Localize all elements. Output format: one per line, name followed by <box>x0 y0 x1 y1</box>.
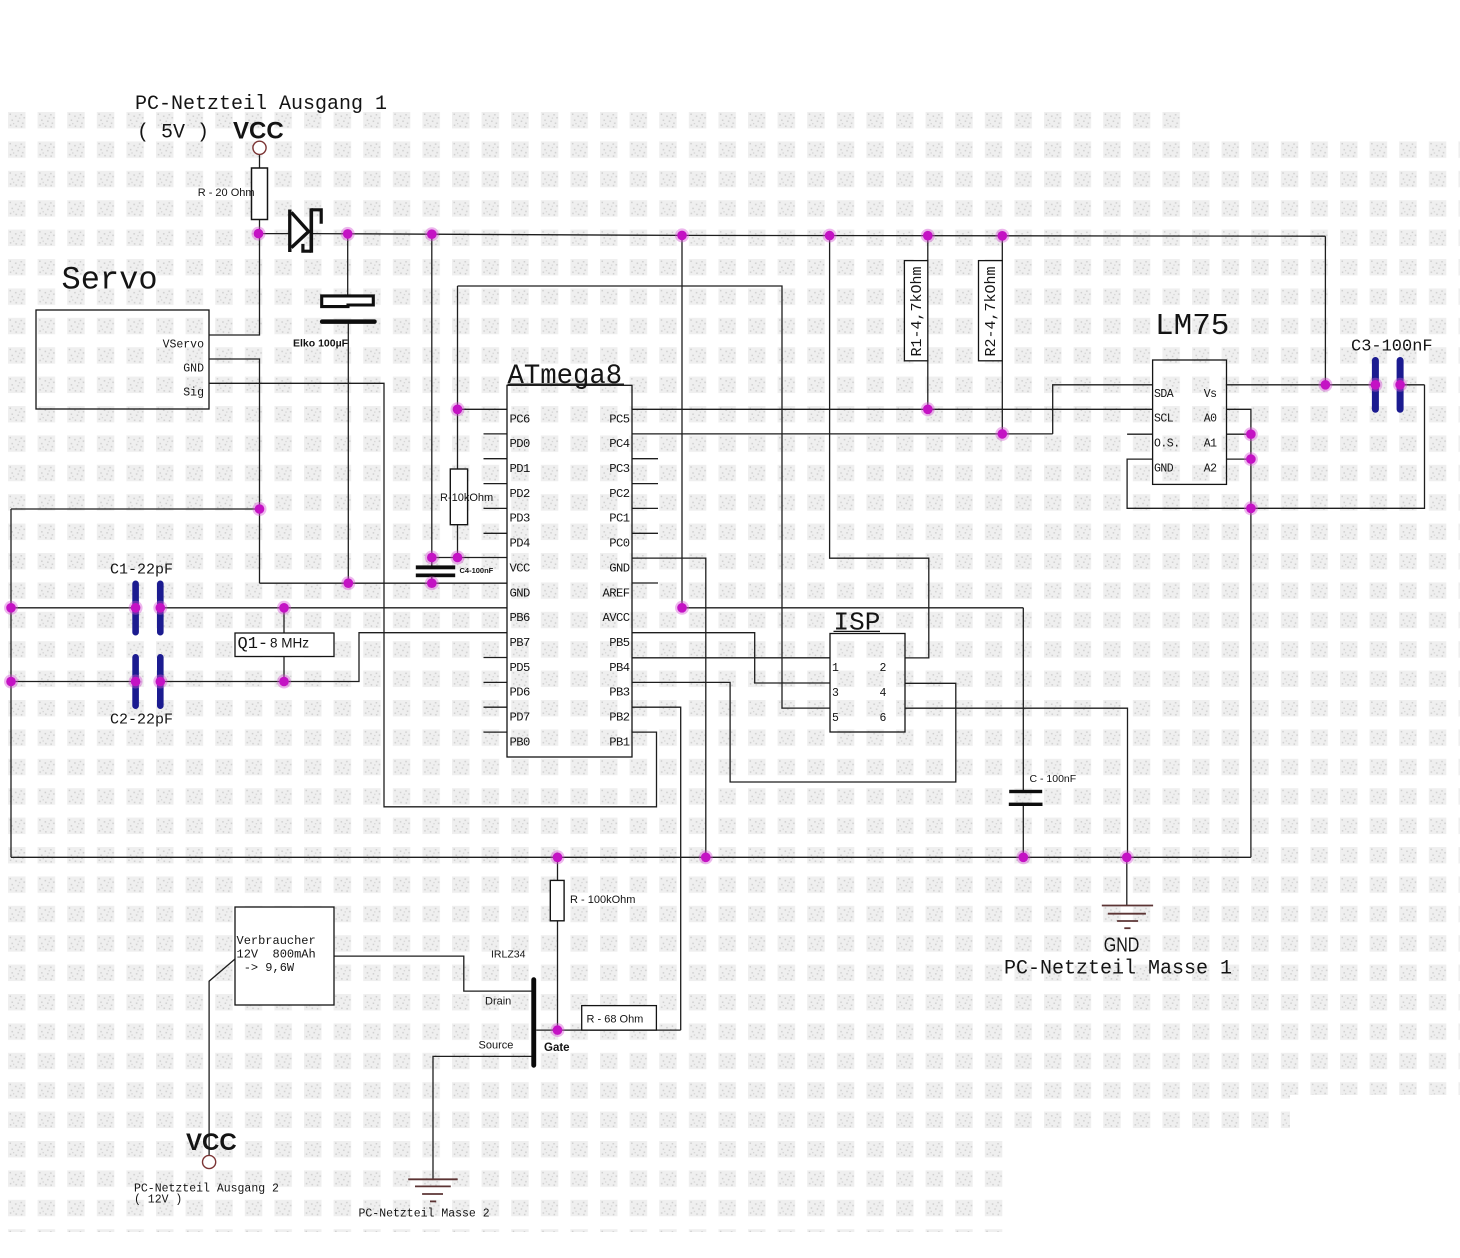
pin number labels ISP 1 3 5 <box>832 662 839 725</box>
wire bottom ground rail <box>11 856 1251 858</box>
wire rail to resistor R1 top <box>927 236 929 261</box>
capacitor C3-100nF left plate <box>1372 357 1379 413</box>
capacitor C2-22pF right plate <box>157 654 164 709</box>
svg-text:PB1: PB1 <box>609 735 630 749</box>
wire crystal bottom link <box>283 657 285 682</box>
svg-text:4: 4 <box>880 687 887 700</box>
wire LM75 A0 to ground column <box>1227 409 1251 857</box>
wire ATmega left stub PB0 <box>484 731 508 733</box>
svg-text:LM75: LM75 <box>1155 309 1229 344</box>
wire PB2 to gate resistor R-68 <box>632 707 681 1030</box>
svg-text:A2: A2 <box>1204 462 1217 475</box>
wire R-20 bottom to +5V rail node <box>259 220 261 234</box>
underline ATmega8 <box>508 383 625 385</box>
wire Elko bottom plate to GND row <box>347 324 349 584</box>
svg-text:PC-Netzteil Ausgang 1: PC-Netzteil Ausgang 1 <box>135 93 387 116</box>
wire rail to Elko top plate <box>347 234 349 295</box>
wire crystal top link <box>283 608 285 633</box>
resistor R-20 Ohm body <box>252 168 268 220</box>
wire rail to R-100k top <box>557 857 559 880</box>
wire rail down to AVCC junction <box>681 235 683 607</box>
node LM75 ground loop tie <box>1244 501 1258 515</box>
IC U1 ATmega8 box <box>507 385 632 757</box>
node C4 bottom GND junction <box>425 576 439 590</box>
svg-text:2: 2 <box>880 662 887 675</box>
capacitor C2-22pF left plate <box>132 654 139 709</box>
svg-text:PC4: PC4 <box>609 437 630 451</box>
wire R-100k bottom to gate node <box>557 921 559 1030</box>
wire ATmega right stub AREF <box>632 582 658 584</box>
label Verbraucher ratings <box>237 934 316 975</box>
node +5V at R-20 bottom <box>252 227 266 241</box>
wire LM75 A1 stub <box>1227 433 1251 435</box>
node C3 right plate junction <box>1393 378 1407 392</box>
wire ATmega GND right to bottom rail <box>632 558 706 857</box>
ground symbol GND2 PC-Netzteil Masse 2 <box>408 1179 458 1201</box>
svg-text:AVCC: AVCC <box>602 611 629 625</box>
node crystal top junction <box>277 601 291 615</box>
connector J1 Servo box <box>36 310 209 409</box>
svg-text:Gate: Gate <box>544 1042 570 1054</box>
svg-text:IRLZ34: IRLZ34 <box>491 949 526 961</box>
svg-text:A0: A0 <box>1204 413 1217 426</box>
node rail C-100nF junction <box>1016 850 1030 864</box>
svg-text:PC6: PC6 <box>510 412 531 426</box>
wire R-10k top to PC6 node and RESET line <box>457 286 459 469</box>
power symbol VCC1 terminal circle <box>253 141 266 154</box>
svg-text:Drain: Drain <box>485 995 511 1007</box>
wire C2 row left segment <box>11 681 136 683</box>
svg-text:Verbraucher: Verbraucher <box>237 934 316 948</box>
wire ATmega left stub PD6 <box>484 681 508 683</box>
svg-text:PC2: PC2 <box>609 487 630 501</box>
capacitor C4-100nF plates <box>416 565 455 569</box>
svg-text:GND: GND <box>183 363 204 376</box>
capacitor C1-22pF left plate <box>132 581 139 636</box>
svg-text:VCC: VCC <box>186 1129 237 1156</box>
wire Servo Sig to ATmega PB1 <box>209 383 657 807</box>
svg-text:Vs: Vs <box>1204 388 1217 401</box>
wire AVCC column to C-100nF top <box>1022 608 1024 790</box>
svg-text:PD0: PD0 <box>510 437 531 451</box>
svg-text:C1-22pF: C1-22pF <box>110 562 173 579</box>
svg-text:C - 100nF: C - 100nF <box>1030 773 1077 785</box>
svg-text:12V 800mAh: 12V 800mAh <box>237 948 316 962</box>
pin number labels ISP 2 4 6 <box>880 662 887 725</box>
resistor R-10kOhm body <box>450 469 467 525</box>
wire C4 bottom link <box>431 577 433 583</box>
wire ATmega left stub PD4 <box>484 532 508 534</box>
svg-text:PB5: PB5 <box>609 636 630 650</box>
transistor Q2 IRLZ34 body bar <box>531 977 536 1067</box>
svg-text:SCL: SCL <box>1154 413 1174 426</box>
svg-text:AREF: AREF <box>602 586 629 600</box>
svg-text:C3-100nF: C3-100nF <box>1351 338 1433 357</box>
wire ATmega right stub PC1 <box>632 507 658 509</box>
svg-text:5: 5 <box>832 712 839 725</box>
wire +5V node to diode anode <box>258 233 290 235</box>
svg-text:Sig: Sig <box>183 387 204 400</box>
svg-text:Servo: Servo <box>62 262 158 299</box>
wire C3 right plate stub <box>1400 384 1424 386</box>
node Elko top junction <box>341 227 355 241</box>
capacitor C1-22pF right plate <box>157 581 164 636</box>
resistor R-100kOhm body <box>550 880 564 920</box>
crystal Q1 box <box>235 633 334 657</box>
node VCC column junction <box>425 227 439 241</box>
wire ATmega left stub PD1 <box>484 458 508 460</box>
svg-text:PC5: PC5 <box>609 412 630 426</box>
wire SCL net PC5 to LM75 SCL <box>632 408 1153 410</box>
node ISP supply junction <box>823 229 837 243</box>
node A0-A1 tie <box>1244 427 1258 441</box>
wire left ground riser vertical <box>10 509 12 857</box>
wire C1 row left segment <box>11 607 136 609</box>
node Vs C3 junction <box>1318 378 1332 392</box>
resistor R1 4,7kOhm body <box>904 261 927 361</box>
svg-text:ATmega8: ATmega8 <box>508 361 623 392</box>
wire C4 top link <box>431 558 433 567</box>
wire PB3 to ISP pin4 <box>632 682 956 782</box>
node C1 right plate junction <box>153 601 167 615</box>
svg-text:PC-Netzteil Masse 2: PC-Netzteil Masse 2 <box>359 1208 490 1221</box>
wire ATmega left stub PD3 <box>484 507 508 509</box>
capacitor Elko 100uF top plate <box>322 296 374 307</box>
diode D1 bottom hook <box>303 244 311 251</box>
svg-text:PC1: PC1 <box>609 512 630 526</box>
wire rail to resistor R2 top <box>1001 236 1003 261</box>
wire Vs row to C3 left plate <box>1227 384 1376 386</box>
connector J2 ISP box <box>830 634 905 733</box>
svg-text:PD6: PD6 <box>510 686 531 700</box>
wire ATmega left stub PD2 <box>484 483 508 485</box>
svg-text:VCC: VCC <box>233 118 284 145</box>
wire +5V rail from diode cathode to right end <box>312 234 1325 237</box>
wire C1 row to crystal top and ATmega PB6 <box>160 607 507 609</box>
node C2 left plate junction <box>129 675 143 689</box>
svg-text:PD7: PD7 <box>510 711 531 725</box>
wire ATmega right stub PC3 <box>632 458 658 460</box>
wire Servo GND pin down to GND row <box>209 359 260 583</box>
wire PC6 pin <box>458 408 508 410</box>
wire R-10k bottom to VCC row <box>457 525 459 558</box>
svg-text:R - 100kOhm: R - 100kOhm <box>570 894 635 906</box>
wire SDA jog up to LM75 SDA <box>1053 385 1153 434</box>
pin labels LM75 right column <box>1204 388 1217 476</box>
wire rail to GND1 symbol <box>1126 857 1128 905</box>
node left riser C1 row <box>4 601 18 615</box>
node crystal bottom junction <box>277 675 291 689</box>
node rail GND1 junction <box>1120 850 1134 864</box>
svg-text:C4-100nF: C4-100nF <box>460 566 494 575</box>
wire PB5 to ISP pin3 <box>632 633 830 683</box>
wire ATmega left stub PD7 <box>484 706 508 708</box>
wire LM75 A2 stub <box>1227 458 1251 460</box>
wire C-100nF bottom to rail <box>1022 806 1024 858</box>
svg-text:PD2: PD2 <box>510 487 531 501</box>
svg-text:PC3: PC3 <box>609 462 630 476</box>
node PC6 reset junction <box>451 402 465 416</box>
diode D1 anode bar <box>288 210 291 253</box>
wire ATmega right stub PC2 <box>632 483 658 485</box>
svg-text:PB0: PB0 <box>510 735 531 749</box>
node AVCC row junction <box>675 601 689 615</box>
node C4 top VCC row junction <box>425 551 439 565</box>
node rail ATmega GND junction <box>699 850 713 864</box>
svg-text:C2-22pF: C2-22pF <box>110 712 173 729</box>
svg-text:O.S.: O.S. <box>1154 437 1180 450</box>
wire rail down to ATmega VCC pin column <box>431 234 433 557</box>
wire AVCC row to C-100nF column <box>682 607 1023 609</box>
svg-text:SDA: SDA <box>1154 388 1174 401</box>
svg-text:R - 20 Ohm: R - 20 Ohm <box>198 187 255 199</box>
wire C2 row to crystal bottom and PB7 riser <box>160 633 507 682</box>
wire Verbraucher to drain <box>334 956 532 991</box>
capacitor C-100nF plates <box>1009 790 1042 793</box>
svg-text:-> 9,6W: -> 9,6W <box>237 961 295 975</box>
capacitor C3-100nF right plate <box>1397 357 1404 413</box>
ground symbol GND1 PC-Netzteil Masse 1 <box>1102 906 1153 929</box>
diode D1 cathode bar <box>309 208 313 252</box>
svg-text:VCC: VCC <box>510 561 531 575</box>
svg-text:ISP: ISP <box>834 608 881 638</box>
wire Servo VServo pin to +5V node <box>209 234 260 335</box>
wire left ground riser to servo-gnd column <box>11 508 260 510</box>
svg-text:GND: GND <box>510 586 531 600</box>
pin labels ATmega8 left column <box>510 412 531 749</box>
wire LM75 GND loop to C3 right plate <box>1127 385 1424 509</box>
svg-text:( 12V ): ( 12V ) <box>134 1194 182 1207</box>
wire ATmega left stub PD0 <box>484 433 508 435</box>
capacitor Elko 100uF bottom plate <box>320 319 377 324</box>
svg-text:GND: GND <box>609 561 630 575</box>
svg-text:R - 68 Ohm: R - 68 Ohm <box>587 1014 644 1026</box>
diode D1 top hook <box>311 210 321 224</box>
wire PB4 to ISP pin1 <box>632 657 830 659</box>
node rail R-100k junction <box>551 850 565 864</box>
svg-text:PB3: PB3 <box>609 686 630 700</box>
node C3 left plate junction <box>1368 378 1382 392</box>
wire R1 bottom to SCL line <box>927 361 929 410</box>
node servo ground tee <box>253 502 267 516</box>
svg-text:6: 6 <box>880 712 887 725</box>
wire gate to R-68 <box>536 1029 681 1031</box>
wire source to GND2 symbol <box>433 1056 532 1179</box>
svg-text:PB6: PB6 <box>510 611 531 625</box>
svg-text:A1: A1 <box>1204 437 1217 450</box>
node A1-A2 tie <box>1244 452 1258 466</box>
resistor R2 4,7kOhm body <box>979 261 1003 361</box>
svg-text:R2-4,7kOhm: R2-4,7kOhm <box>983 266 1000 356</box>
svg-text:R-10kOhm: R-10kOhm <box>440 492 493 504</box>
node C2 right plate junction <box>153 675 167 689</box>
svg-text:PB4: PB4 <box>609 661 630 675</box>
wire ISP pin6 to ground rail <box>905 708 1128 857</box>
svg-text:Q1-: Q1- <box>238 635 269 654</box>
node AVCC column junction <box>675 228 689 242</box>
svg-text:PD1: PD1 <box>510 462 531 476</box>
wire GND row to ATmega GND pin <box>260 582 508 584</box>
node R1 bottom SCL junction <box>921 402 935 416</box>
power symbol VCC2 terminal circle <box>203 1155 216 1168</box>
svg-text:PB7: PB7 <box>510 636 531 650</box>
wire SDA net PC4 line <box>632 433 1053 435</box>
wire R2 bottom to SDA line <box>1001 361 1003 434</box>
wire VCC1 terminal to resistor R-20 <box>259 155 261 169</box>
load box Verbraucher <box>235 907 334 1005</box>
node R-10k bottom junction <box>451 551 465 565</box>
pin labels Servo VServo GND Sig <box>163 339 205 400</box>
wire VCC row to ATmega VCC pin <box>432 557 507 559</box>
svg-text:Source: Source <box>479 1040 514 1052</box>
wire Verbraucher diagonal to VCC2 <box>209 959 235 1156</box>
wire RESET line to ISP pin5 <box>458 286 831 708</box>
svg-text:GND: GND <box>1154 462 1174 475</box>
wire VCC feed to ISP pin2 <box>830 236 929 658</box>
node R1 top junction <box>921 229 935 243</box>
svg-text:GND: GND <box>1104 933 1140 956</box>
node gate junction <box>551 1023 565 1037</box>
wire rail down to LM75 Vs row <box>1324 236 1326 385</box>
node left riser C2 row <box>4 675 18 689</box>
pin labels LM75 left column <box>1154 388 1180 476</box>
svg-text:PC0: PC0 <box>609 537 630 551</box>
diode D1 triangle <box>291 212 308 247</box>
svg-text:PC-Netzteil Masse 1: PC-Netzteil Masse 1 <box>1004 958 1232 981</box>
node R2 top junction <box>995 229 1009 243</box>
IC U2 LM75 box <box>1153 360 1227 484</box>
underline ISP <box>834 630 881 632</box>
svg-text:PB2: PB2 <box>609 711 630 725</box>
svg-text:PD5: PD5 <box>510 661 531 675</box>
svg-text:PD3: PD3 <box>510 512 531 526</box>
svg-text:8 MHz: 8 MHz <box>270 636 309 651</box>
pin labels ATmega8 right column <box>602 412 629 749</box>
svg-text:( 5V ): ( 5V ) <box>137 122 209 145</box>
svg-text:3: 3 <box>832 687 839 700</box>
svg-text:R1-4,7kOhm: R1-4,7kOhm <box>909 266 926 356</box>
resistor R-68 Ohm body <box>582 1006 657 1031</box>
wire ATmega right stub PC0 <box>632 532 658 534</box>
svg-text:VServo: VServo <box>163 339 205 352</box>
node C1 left plate junction <box>129 601 143 615</box>
node Elko bottom GND junction <box>341 576 355 590</box>
wire ATmega left stub PD5 <box>484 657 508 659</box>
svg-text:Elko 100µF: Elko 100µF <box>293 338 349 350</box>
wire LM75 O.S. stub <box>1127 433 1153 435</box>
svg-text:PD4: PD4 <box>510 537 531 551</box>
node R2 bottom SDA junction <box>995 427 1009 441</box>
svg-text:1: 1 <box>832 662 839 675</box>
